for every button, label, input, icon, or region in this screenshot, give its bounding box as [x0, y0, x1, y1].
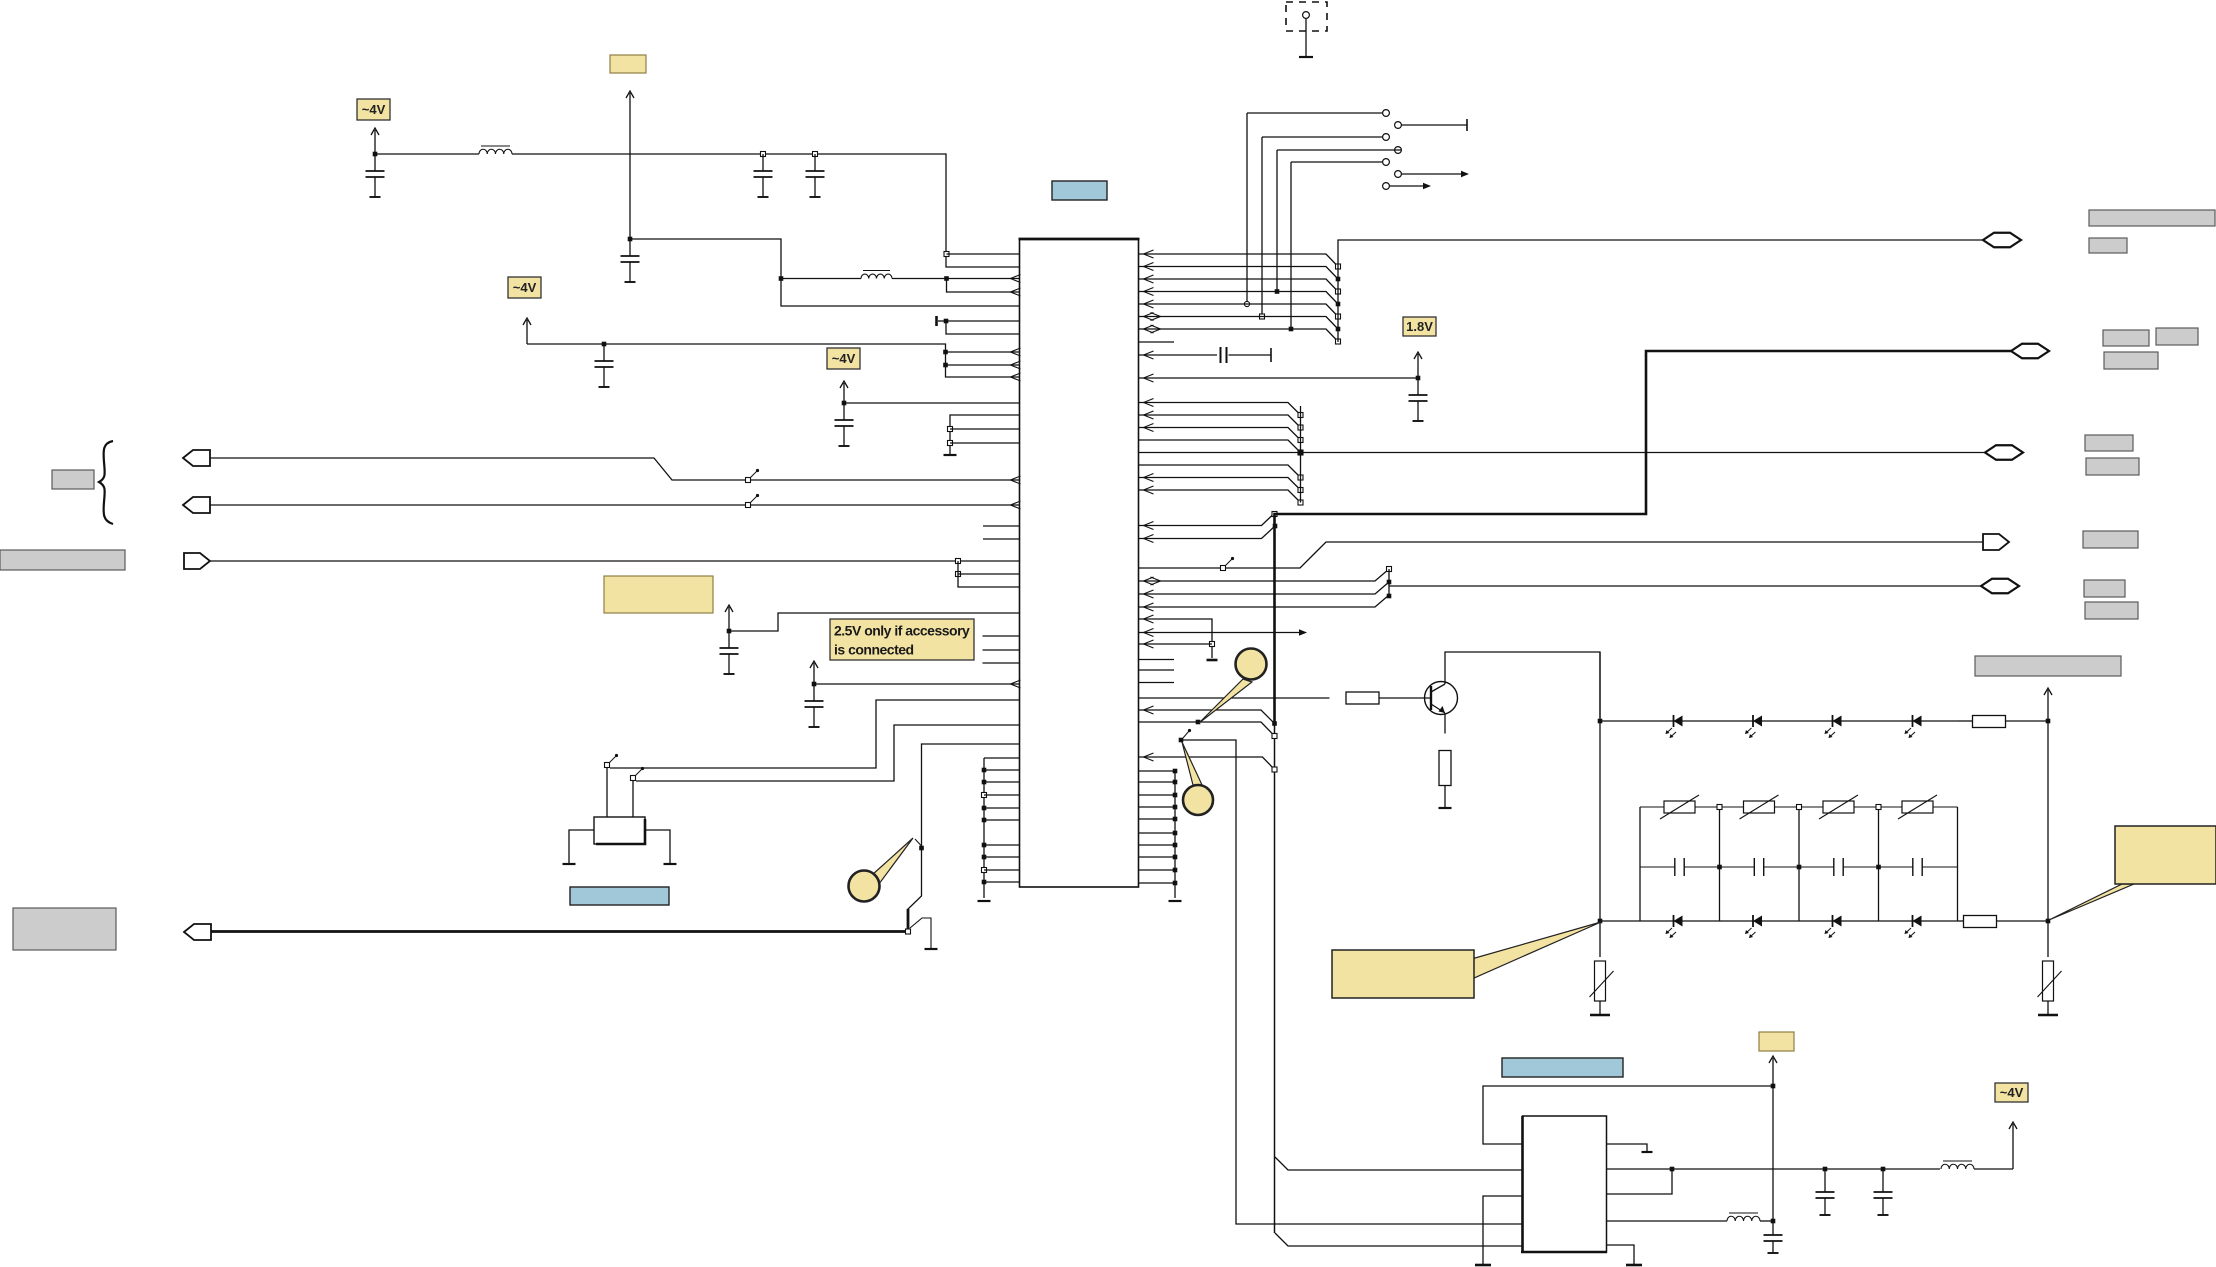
node cap row: [1717, 865, 1722, 870]
keypad row L3: [982, 793, 1020, 798]
wire pin574: [958, 561, 1020, 574]
capacitor C9 (series): [1221, 347, 1272, 363]
capacitor C12: [1874, 1169, 1893, 1215]
wire L3: [210, 560, 1020, 562]
net box (blue, xtal): [570, 887, 669, 905]
transistor Q1: [1425, 682, 1458, 715]
net box (yellow, mid-left): [604, 576, 713, 613]
LED D6: [1745, 915, 1762, 938]
wire collector: [1445, 652, 1600, 718]
net box g4: [2083, 531, 2138, 548]
test point TP-740: [1179, 729, 1191, 742]
wire N1 pin1221r: [1607, 1220, 1728, 1222]
inductor L1: [479, 146, 512, 154]
wire bus2 row 415: [1139, 411, 1304, 430]
net arrow (top): [626, 91, 634, 239]
wire pin403: [844, 402, 1020, 404]
keypad row R2: [1139, 780, 1178, 785]
net box g2c: [2104, 352, 2158, 369]
test point TP-SW: [915, 839, 924, 850]
net label (yellow, bottom): [1759, 1032, 1794, 1051]
arrow up (LED rail): [2044, 688, 2052, 721]
callout box C2 (yellow): [2049, 826, 2216, 920]
node inductor tap: [779, 276, 784, 281]
node pin574: [956, 572, 961, 577]
capacitor C2: [754, 154, 773, 197]
capacitor CL2: [1755, 858, 1764, 876]
wire pin684: [814, 680, 1021, 688]
EMI ladder verticals: [1640, 807, 1958, 921]
keypad row R3: [1139, 793, 1178, 798]
resistor R3: [1958, 716, 2049, 728]
svg-text:~4V: ~4V: [513, 280, 537, 295]
varistor Z4: [1898, 795, 1937, 819]
bus riser right-top: [1338, 240, 1983, 342]
svg-text:~4V: ~4V: [832, 351, 856, 366]
keypad row L8: [982, 868, 1020, 873]
wire N1 pin1245r gnd: [1607, 1245, 1635, 1264]
LED D4: [1905, 715, 1922, 738]
varistor Z6: [2038, 961, 2062, 1001]
LED left column: [1599, 652, 1601, 957]
net arrow (bottom label): [1769, 1056, 1777, 1086]
LED right column: [2047, 721, 2049, 957]
wire 1773 drop: [1772, 1086, 1774, 1221]
capacitor C3: [806, 154, 825, 197]
node pin613 net: [727, 629, 732, 634]
net box g3b: [2086, 458, 2139, 475]
wire pin581: [1139, 567, 1392, 586]
varistor Z1: [1660, 795, 1699, 819]
stub pin650: [983, 649, 1020, 651]
node pin561: [956, 559, 961, 564]
node pin254: [944, 252, 949, 257]
ground (xtal left): [563, 863, 576, 865]
connector (left arrow 1): [183, 450, 210, 466]
keypad row L2: [982, 780, 1020, 785]
net box g1b: [2089, 238, 2127, 253]
connector H5: [1981, 579, 2019, 594]
node VDR row: [1876, 805, 1881, 810]
varistor Z2: [1740, 795, 1779, 819]
callout balloon 1: [1199, 649, 1267, 724]
wire bus row 304: [1139, 300, 1341, 319]
svg-text:1.8V: 1.8V: [1406, 319, 1433, 334]
keypad row L5: [982, 818, 1020, 823]
wire R2 to ground: [1444, 786, 1446, 808]
varistor Z3: [1819, 795, 1858, 819]
wire pin415: [950, 415, 1020, 454]
keypad row L6: [982, 843, 1020, 848]
ground (Q1): [1439, 807, 1452, 809]
stub pin659: [1139, 659, 1175, 661]
inductor L4: [1727, 1213, 1760, 1221]
wire bus2 row 402.5: [1139, 399, 1304, 418]
probe outline (dashed): [1286, 2, 1327, 31]
wire emitter: [1444, 713, 1446, 734]
wire bus row 316.5: [1139, 313, 1341, 332]
net box g2b: [2156, 328, 2198, 345]
stub pin636: [983, 635, 1020, 637]
stub pin670: [1139, 669, 1175, 671]
wire L1: [210, 458, 1021, 484]
power label ~4V (top-left): [357, 99, 390, 120]
power arrow ~4V2: [523, 318, 531, 344]
wire TP740 to bottom IC: [1181, 740, 1522, 1224]
wire L3 up arrow: [1974, 1122, 2017, 1169]
resistor R1: [1346, 692, 1379, 704]
wire ~4V2 rail: [527, 344, 1021, 381]
wire inductor to node: [892, 278, 947, 280]
node pin352: [943, 350, 948, 355]
node C3: [813, 152, 818, 157]
stub pin663: [983, 662, 1020, 664]
net box g5b: [2085, 602, 2138, 619]
connector H3: [1985, 445, 2023, 460]
capacitor C8: [805, 684, 824, 727]
capacitor C11: [1816, 1169, 1835, 1215]
ground stub (N1 r1): [1642, 1151, 1653, 1153]
switch contact: [910, 918, 931, 948]
power label ~4V (center): [827, 348, 860, 369]
LED D1: [1666, 715, 1683, 738]
capacitor C7: [720, 631, 739, 674]
keypad row R7: [1139, 843, 1178, 848]
wire bus2 row 440: [1139, 440, 1304, 455]
crystal B1: [594, 817, 645, 844]
wire TP3 drop: [1260, 137, 1265, 319]
test point TP6: [1395, 171, 1469, 178]
bus2 rail: [1300, 406, 1302, 503]
ground (N1 left): [1475, 1264, 1491, 1267]
wire N1 pin1144r stub: [1607, 1144, 1648, 1151]
connector H2: [2011, 344, 2049, 359]
bus3 rail: [1387, 569, 1392, 598]
node pin321: [944, 319, 949, 324]
connector P4: [1983, 534, 2009, 550]
callout box C1 (yellow): [1332, 922, 1601, 998]
node pin443: [948, 441, 953, 446]
wire bus row 329: [1139, 325, 1341, 344]
LED top rail: [1598, 719, 1958, 724]
keypad col right rail: [1174, 771, 1176, 898]
node VDR row: [1717, 805, 1722, 810]
wire pin757: [1139, 753, 1278, 772]
probe bar: [1299, 56, 1313, 58]
wire VBAT to inductor: [375, 153, 479, 155]
test point TP-L2: [746, 494, 760, 508]
node VBAT1: [373, 152, 378, 157]
wire top rail N1: [1483, 1086, 1773, 1144]
bus thick battery: [1275, 351, 2012, 724]
wire TP1 drop: [1244, 113, 1249, 307]
node C5: [602, 342, 607, 347]
capacitor C6: [835, 403, 854, 446]
wire pin352: [946, 348, 1021, 356]
stub pin526: [983, 525, 1020, 527]
node bus2-452: [1298, 450, 1303, 455]
wire pin587: [958, 574, 1020, 587]
wire pin568 to P4: [1139, 542, 1984, 568]
wire bus2 row 490: [1139, 486, 1304, 505]
varistor Z5: [1590, 961, 1614, 1001]
net box (blue, bottom): [1502, 1058, 1623, 1077]
wire bus row 279: [1139, 275, 1341, 294]
node 1773-1221: [1771, 1219, 1776, 1224]
node pin378: [1416, 376, 1421, 381]
inductor L2: [861, 271, 892, 279]
node cap 1883: [1881, 1167, 1886, 1172]
capacitor CL1: [1675, 858, 1684, 876]
resistor R2: [1439, 751, 1451, 786]
wire xtal right leg: [645, 830, 670, 863]
wire pin334: [946, 321, 1020, 334]
power arrow acc2: [810, 661, 818, 684]
inductor L3: [1941, 1161, 1974, 1169]
wire L2: [210, 501, 1021, 509]
test point TP1: [1247, 110, 1389, 117]
wire pin278: [947, 275, 1021, 283]
wire tick to node: [938, 320, 946, 322]
capacitor CL3: [1834, 858, 1843, 876]
IC N1 (regulator): [1521, 1116, 1607, 1252]
bus thin lower: [1274, 724, 1276, 1233]
wire pin632 arrow: [1139, 629, 1308, 637]
EMI ladder cap row: [1640, 866, 1958, 868]
net box (gray small, left): [52, 470, 94, 489]
net box g2a: [2103, 330, 2149, 346]
keypad row L9: [982, 880, 1020, 885]
LED bottom rail: [1598, 919, 2051, 924]
wire bus2 row 427.5: [1139, 424, 1304, 443]
wire N1 pin1196 gnd: [1483, 1196, 1523, 1264]
svg-text:2.5V only if accessory: 2.5V only if accessory: [834, 623, 970, 639]
power arrow ~4V3: [840, 381, 848, 403]
gray net box (LED top): [1975, 656, 2121, 676]
keypad row L1: [982, 768, 1020, 773]
ground (xtal right): [664, 863, 677, 865]
wire bus3 to H5: [1389, 585, 1981, 587]
wire tap to inductor: [781, 278, 861, 280]
ground (LED left): [1590, 1001, 1610, 1015]
wire TP5 drop: [1289, 162, 1294, 331]
node 644: [1210, 642, 1215, 647]
wire pin594: [1139, 580, 1392, 598]
ground (LED right): [2038, 1001, 2058, 1015]
power arrow VBAT (top-left): [371, 128, 379, 153]
stub pin539: [983, 538, 1020, 540]
net box (gray wide, left): [0, 550, 125, 570]
keypad col left rail: [984, 758, 1020, 898]
capacitor C5: [595, 344, 614, 387]
wire Y1 to IC pin305: [630, 239, 1020, 306]
wire pin321: [946, 320, 1020, 322]
ground (keypad left): [978, 900, 991, 902]
brace (left group): [99, 441, 113, 524]
connector (left pentagon out): [184, 553, 210, 569]
node pin278: [944, 276, 949, 281]
net box (blue, top): [1052, 181, 1107, 200]
test point TP7: [1383, 183, 1431, 190]
test point TP2: [1395, 119, 1467, 131]
net box g1a: [2089, 210, 2215, 226]
net box g3a: [2085, 435, 2133, 451]
callout balloon 3: [849, 838, 914, 902]
wire N1 pin1194r: [1607, 1169, 1673, 1194]
wire pin538: [1139, 524, 1278, 543]
node VDR row: [1797, 805, 1802, 810]
node pin429: [948, 427, 953, 432]
wire pin292: [947, 279, 1021, 297]
net label (yellow, top): [610, 55, 646, 73]
LED D8: [1905, 915, 1922, 938]
test point TP-X1: [605, 754, 619, 768]
connector (left arrow 2): [183, 497, 210, 513]
test point TP5: [1291, 159, 1389, 166]
wire R1 to base: [1379, 697, 1430, 699]
svg-text:is connected: is connected: [834, 642, 914, 658]
power label 1.8V: [1403, 317, 1436, 336]
keypad row L7: [982, 855, 1020, 860]
wire pin365: [946, 361, 1021, 369]
capacitor C10: [1409, 378, 1428, 421]
keypad row R10: [1139, 881, 1178, 886]
wire TP4 drop: [1275, 150, 1280, 294]
stub pin682: [1139, 682, 1175, 684]
ground (cluster): [944, 454, 957, 456]
stub pin342: [1139, 341, 1175, 343]
switch arm thick: [907, 909, 910, 929]
capacitor C13: [1764, 1221, 1783, 1253]
wire pin355: [1139, 351, 1218, 359]
keypad row R9: [1139, 868, 1178, 873]
ground (keypad right): [1169, 900, 1182, 902]
wire xtal1 rail: [610, 700, 1020, 768]
svg-text:~4V: ~4V: [362, 102, 386, 117]
wire xtal2 rail: [636, 725, 1020, 781]
keypad row R4: [1139, 805, 1178, 810]
node 1773-1086: [1771, 1084, 1776, 1089]
node C2: [761, 152, 766, 157]
wire pin525: [1139, 516, 1273, 530]
test point TP-X2: [631, 767, 645, 781]
ground (N1 right): [1626, 1264, 1642, 1267]
wire pin744 to switch: [908, 744, 1020, 928]
EMI ladder VDR row: [1640, 806, 1958, 808]
capacitor CL4: [1913, 858, 1922, 876]
wire bus2 row 477.5: [1139, 474, 1304, 493]
wire bus rip to N1 pin1170: [1275, 1157, 1523, 1170]
wire pin429: [950, 428, 1020, 430]
wire bus row 254: [1139, 250, 1341, 269]
wire acc net to pin613: [729, 613, 1020, 631]
node pin403: [842, 401, 847, 406]
thick rail L4: [211, 930, 905, 933]
ground (switch): [925, 948, 938, 950]
wire xtal2 to pin725: [632, 781, 634, 817]
terminator bar: [935, 316, 938, 326]
wire xtal left leg: [569, 830, 594, 863]
capacitor C1: [366, 154, 385, 197]
node bus corner: [1272, 512, 1277, 517]
IC U1 (baseband ASIC): [1019, 239, 1140, 887]
wire xtal1 to pin700: [606, 768, 608, 817]
ground (pin644): [1207, 659, 1218, 662]
wire bus row 291.5: [1139, 288, 1341, 307]
test point TP4: [1277, 147, 1402, 154]
test point TP-568: [1221, 557, 1235, 571]
node Y1: [628, 237, 633, 242]
wire L4 to node: [1760, 1220, 1773, 1222]
node pin365: [943, 363, 948, 368]
LED D3: [1825, 715, 1842, 738]
node cap row: [1797, 865, 1802, 870]
connector (left arrow 3): [184, 924, 211, 940]
net box g5a: [2084, 580, 2125, 597]
net box (gray, bottom-left): [13, 908, 116, 950]
wire inductor to IC pins: [512, 154, 1020, 267]
note 2.5V only if accessory is connected: [830, 619, 974, 660]
LED D5: [1666, 915, 1683, 938]
keypad row R5: [1139, 817, 1178, 822]
svg-text:~4V: ~4V: [2000, 1085, 2024, 1100]
wire pin452 to H3: [1139, 452, 1986, 454]
wire bus row 266.5: [1139, 263, 1341, 282]
capacitor C4: [621, 239, 640, 282]
LED D2: [1745, 715, 1762, 738]
resistor R4: [1958, 916, 2049, 928]
test point TP-L1: [746, 469, 760, 483]
callout balloon 2: [1182, 742, 1213, 815]
wire pin607: [1139, 595, 1390, 611]
keypad row R8: [1139, 855, 1178, 860]
wire pin619: [1139, 615, 1213, 658]
node N1 1672: [1670, 1167, 1675, 1172]
keypad row R1: [1139, 769, 1178, 774]
LED D7: [1825, 915, 1842, 938]
power arrow acc: [725, 605, 733, 631]
wire pin698: [1139, 697, 1330, 699]
node cap row: [1876, 865, 1881, 870]
connector H1: [1983, 233, 2021, 248]
wire N1 pin1169r: [1607, 1168, 1941, 1170]
wire pin644: [1139, 640, 1213, 648]
node switch common: [906, 929, 911, 934]
wire pin710: [1139, 706, 1277, 726]
power arrow 1.8V: [1414, 352, 1422, 378]
wire pin443: [950, 442, 1020, 444]
wire pin254: [947, 253, 1020, 255]
test point TP3: [1262, 134, 1389, 141]
power label ~4V (bottom-right): [1995, 1083, 2028, 1102]
wire bus rip to N1 pin1246: [1275, 1233, 1523, 1246]
power label ~4V (mid-left): [508, 277, 541, 298]
probe pin: [1303, 12, 1310, 57]
wire bus2 row 465: [1139, 465, 1304, 480]
wire pin378: [1139, 374, 1419, 382]
wire pin722: [1139, 720, 1278, 739]
node LED rail right: [2046, 719, 2051, 724]
node cap 1825: [1823, 1167, 1828, 1172]
keypad row R6: [1139, 831, 1178, 836]
node pin684: [812, 682, 817, 687]
keypad row L4: [982, 806, 1020, 811]
